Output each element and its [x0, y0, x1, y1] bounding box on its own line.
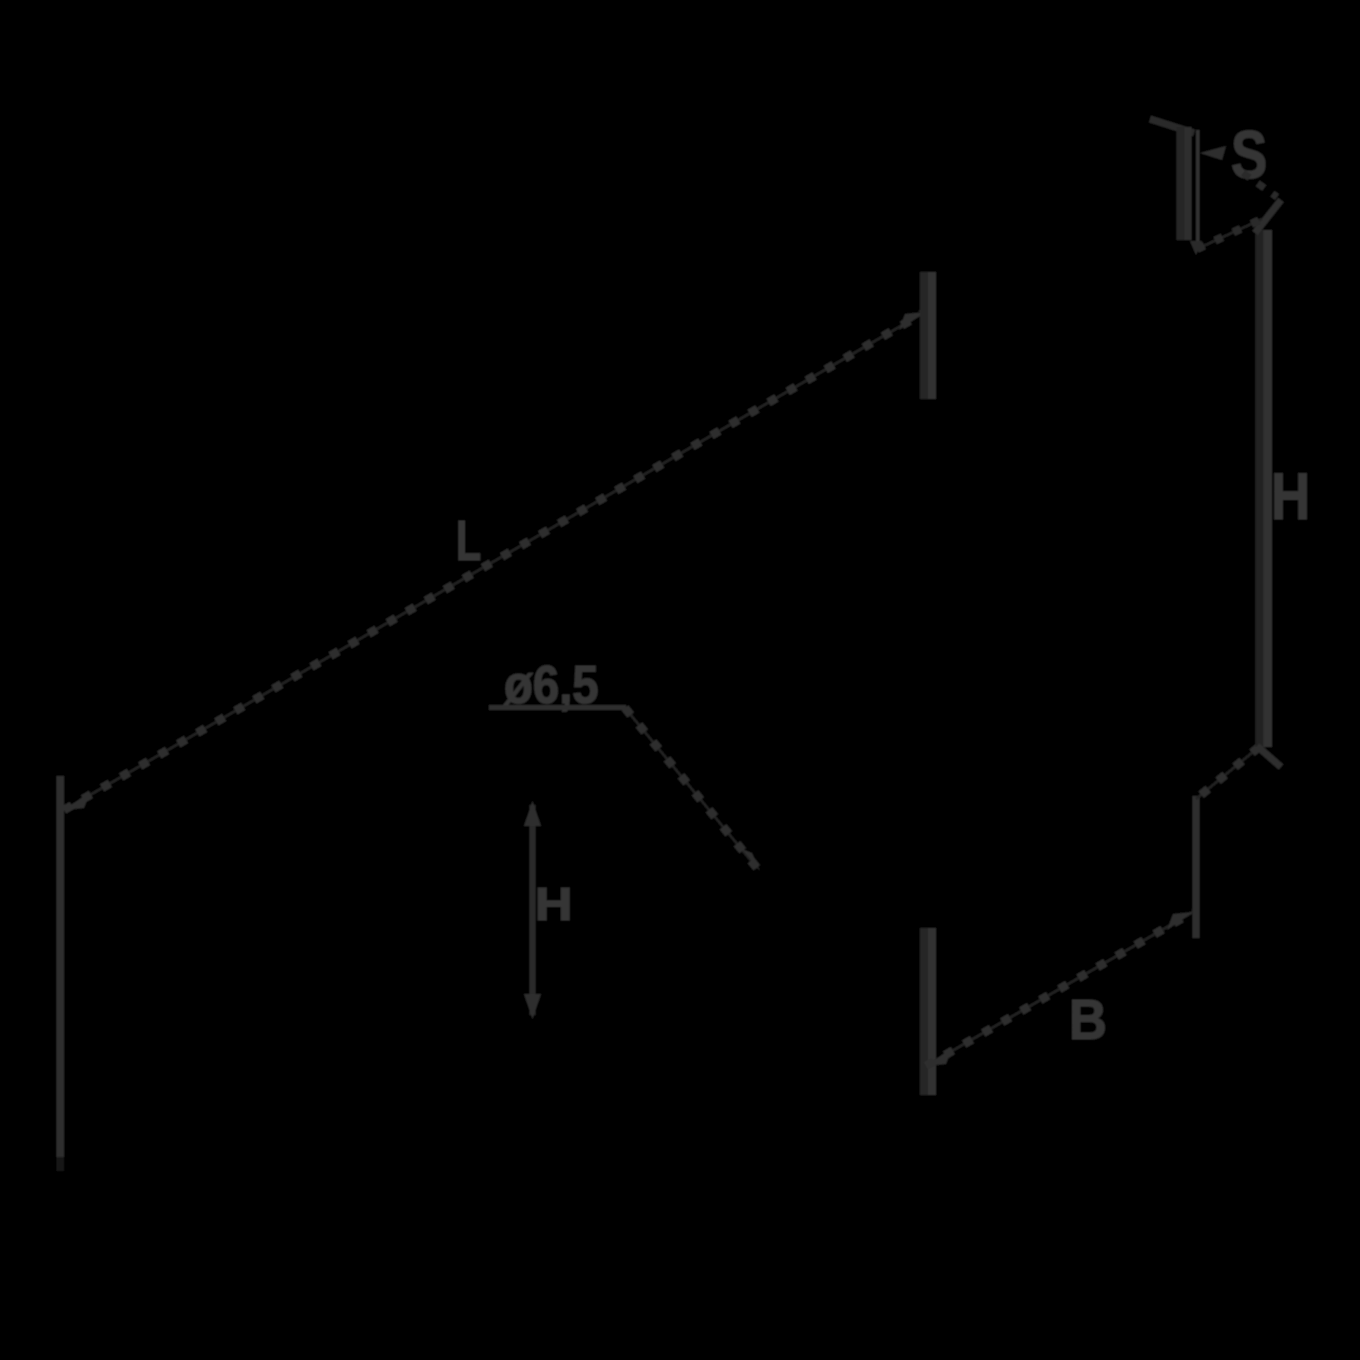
- dimension line B: [926, 912, 1193, 1066]
- arrowhead middle H top: [524, 801, 541, 826]
- S-detail: inner face line: [1196, 130, 1200, 247]
- arrowhead B left: [926, 1048, 952, 1066]
- dimension line L: [64, 312, 925, 810]
- S-detail: outer face line: [1177, 127, 1192, 240]
- arrowhead middle H bottom: [524, 994, 541, 1019]
- extension line left (far end of profile): [57, 776, 65, 1171]
- arrow tick bottom of H line: [1257, 746, 1281, 767]
- web right edge / dimension H (right, double vertical): [1256, 230, 1273, 747]
- svg-text:B: B: [1069, 987, 1107, 1052]
- arrow tick top of H line: [1255, 200, 1281, 233]
- arrowhead L right: [899, 312, 925, 330]
- leader diagonal to hole: [625, 708, 757, 868]
- svg-text:H: H: [535, 880, 573, 931]
- S leader to web top: [1243, 173, 1277, 197]
- S-detail: arrow pointing left at faces: [1200, 146, 1226, 160]
- leader horizontal for hole: [489, 705, 626, 710]
- extension line left of B: [920, 928, 936, 1095]
- arrowhead L left: [64, 792, 90, 810]
- svg-text:L: L: [456, 508, 481, 572]
- arrowhead B right: [1167, 912, 1193, 930]
- web top edge (near end): [1197, 219, 1262, 249]
- small down arrow at inner face bottom: [1190, 241, 1202, 255]
- leader arrowhead at hole: [742, 849, 760, 871]
- svg-text:H: H: [1271, 459, 1310, 533]
- S-detail: top flange cut (top-left edge): [1150, 119, 1194, 133]
- dimension line H (hole offset, middle): [530, 805, 536, 1015]
- extension line right of B (lip edge): [1193, 796, 1200, 938]
- extension line top (near end, top of L): [920, 272, 936, 399]
- web bottom edge (step diagonal near end): [1196, 747, 1259, 799]
